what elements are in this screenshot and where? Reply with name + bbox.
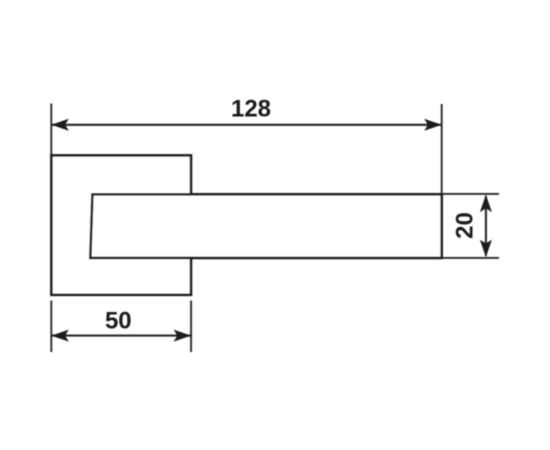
50 left extension line [50, 301, 52, 353]
arrowhead right of 50 [174, 330, 192, 342]
dimension line 128 [52, 124, 441, 126]
arrowhead right of 128 [424, 119, 442, 131]
bar top extension line [442, 193, 499, 195]
svg-text:128: 128 [231, 96, 271, 123]
arrowhead top of 20 [480, 195, 492, 213]
svg-text:20: 20 [452, 212, 479, 239]
lever bar [90, 194, 441, 258]
arrowhead left of 50 [51, 330, 69, 342]
50 right extension line [190, 301, 192, 353]
arrowhead bottom of 20 [480, 240, 492, 258]
dimension line 20 [485, 196, 487, 256]
svg-text:50: 50 [105, 308, 132, 335]
right extension line [441, 104, 443, 195]
square rosette [51, 155, 191, 294]
bar bottom extension line [442, 257, 499, 259]
left extension line [50, 104, 52, 157]
arrowhead left of 128 [51, 119, 69, 131]
dimension line 50 [52, 335, 191, 337]
